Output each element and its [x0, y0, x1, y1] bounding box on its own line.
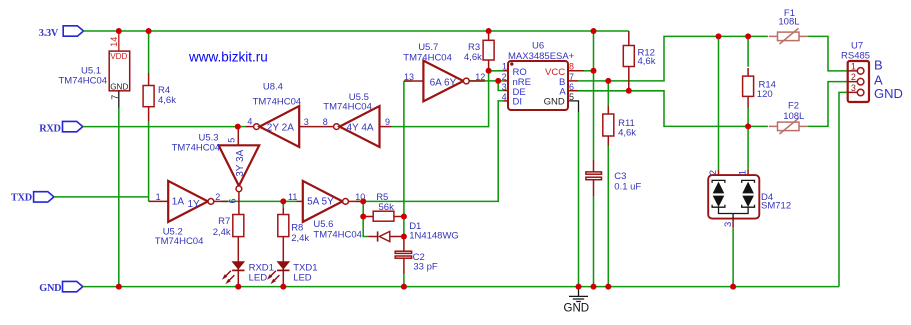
svg-text:120: 120 — [757, 89, 773, 100]
svg-text:GND: GND — [874, 86, 903, 101]
junction R4 / 3.3V rail — [146, 28, 152, 34]
svg-text:GND: GND — [110, 82, 128, 91]
wire U5.6 out to DI — [356, 101, 503, 201]
svg-text:5: 5 — [227, 138, 237, 143]
svg-text:4,6k: 4,6k — [464, 52, 482, 63]
svg-text:2,4k: 2,4k — [291, 233, 309, 244]
svg-text:LED: LED — [293, 272, 312, 283]
svg-text:TM74HC04: TM74HC04 — [403, 52, 452, 63]
junction R5 right / RC node — [401, 214, 407, 220]
resistor R8 — [278, 201, 310, 261]
svg-text:5A 5Y: 5A 5Y — [307, 197, 334, 208]
svg-text:GND: GND — [544, 97, 565, 108]
junction RXD / U5.3 input — [235, 124, 241, 130]
junction U5.1 VDD / 3.3V rail — [116, 28, 122, 34]
svg-text:U6: U6 — [532, 41, 544, 52]
ground symbol — [564, 287, 590, 315]
svg-text:3: 3 — [304, 117, 309, 127]
op-amp U5.6 inverter — [288, 181, 365, 240]
svg-text:33 pF: 33 pF — [413, 262, 437, 273]
svg-text:U8.4: U8.4 — [263, 81, 283, 92]
junction R3 / 3.3V rail — [486, 28, 492, 34]
op-amp U5.2 inverter — [149, 181, 228, 247]
junction C3 / GND rail — [591, 284, 597, 290]
svg-text:2: 2 — [502, 72, 507, 82]
svg-text:1: 1 — [737, 170, 748, 175]
resistor R11 — [603, 106, 637, 146]
junction R11 / GND rail — [605, 284, 611, 290]
svg-text:9: 9 — [385, 117, 390, 127]
op-amp U5.7 inverter — [403, 42, 485, 101]
svg-text:VDD: VDD — [110, 52, 127, 61]
resistor R4 — [143, 73, 176, 121]
wire GND to U7 pin3 — [839, 92, 848, 286]
wire B net — [578, 36, 768, 81]
wire R4 top — [148, 31, 150, 73]
svg-text:7: 7 — [569, 72, 574, 82]
svg-text:1: 1 — [851, 61, 856, 71]
port TXD — [11, 192, 54, 204]
svg-text:6: 6 — [228, 198, 238, 203]
wire R5 D1 branch — [363, 201, 368, 236]
svg-text:3: 3 — [851, 83, 856, 93]
svg-text:TM74HC04: TM74HC04 — [59, 75, 108, 86]
svg-text:1N4148WG: 1N4148WG — [409, 231, 459, 242]
wire C2 bottom — [403, 274, 405, 287]
svg-text:8: 8 — [323, 117, 328, 127]
diode D1 — [368, 221, 459, 242]
svg-text:14: 14 — [109, 37, 119, 47]
svg-text:1Y: 1Y — [188, 199, 201, 210]
junction R12 / A line — [626, 88, 632, 94]
fuse F2 — [769, 101, 808, 135]
svg-text:R7: R7 — [218, 216, 230, 227]
svg-text:13: 13 — [404, 72, 414, 82]
LED TXD1 — [267, 261, 318, 286]
junction C2 / GND rail — [401, 284, 407, 290]
wire U6 pin5 to GND — [578, 112, 580, 287]
junction U5.6 output / R5 branch — [360, 198, 366, 204]
resistor R14 — [743, 68, 776, 108]
svg-text:2Y 2A: 2Y 2A — [267, 123, 294, 134]
svg-text:1: 1 — [502, 62, 507, 72]
connector U7 RS485 — [841, 41, 903, 103]
wire D4 pin3 to GND — [732, 227, 734, 287]
wire GND bottom rail — [83, 286, 839, 288]
svg-text:TM74HC04: TM74HC04 — [313, 229, 362, 240]
wire VCC pin8 — [584, 70, 594, 72]
svg-text:LED: LED — [249, 272, 268, 283]
capacitor C3 — [586, 160, 642, 196]
wire TXD net — [54, 121, 149, 201]
svg-text:108L: 108L — [778, 17, 799, 28]
svg-text:11: 11 — [288, 192, 297, 202]
svg-text:0.1 uF: 0.1 uF — [614, 181, 641, 192]
svg-text:SM712: SM712 — [761, 201, 791, 212]
junction LED RXD1 / GND rail — [235, 284, 241, 290]
op-amp U5.5 inverter — [323, 92, 392, 147]
junction R11 / B line — [605, 78, 611, 84]
wire RXD net — [83, 126, 246, 128]
wire 3.3V top rail — [84, 30, 629, 32]
svg-text:2,4k: 2,4k — [213, 227, 231, 238]
junction R3 / RO — [486, 68, 492, 74]
resistor R12 — [623, 31, 655, 91]
wire nRE DE tie — [469, 81, 503, 91]
svg-text:4: 4 — [247, 116, 252, 126]
resistor R5 — [363, 192, 404, 221]
svg-text:2: 2 — [851, 72, 856, 82]
TVS D4 SM712 — [708, 170, 791, 227]
svg-text:3: 3 — [723, 222, 734, 227]
junction D4 pin3 / GND rail — [730, 284, 736, 290]
svg-text:7: 7 — [110, 95, 120, 100]
svg-text:4,6k: 4,6k — [618, 128, 636, 139]
wire A net — [578, 91, 768, 127]
svg-text:RS485: RS485 — [841, 51, 870, 62]
op-amp U8.4 inverter — [246, 81, 334, 147]
svg-text:B: B — [874, 58, 883, 73]
svg-text:DI: DI — [513, 97, 523, 108]
svg-text:4: 4 — [502, 92, 507, 102]
wire U5.5 pin9 to RO — [392, 71, 504, 127]
svg-text:R8: R8 — [291, 223, 303, 234]
junction R8 / U5.6 input — [280, 198, 286, 204]
junction U5.1 pin7 / GND rail — [116, 284, 122, 290]
junction nRE DE tie — [495, 78, 501, 84]
svg-text:MAX3485ESA+: MAX3485ESA+ — [508, 51, 575, 62]
junction VCC pin8 — [591, 68, 597, 74]
IC U5.1 power — [59, 31, 130, 108]
port RXD — [39, 121, 83, 134]
junction R14 bottom / A line — [745, 123, 751, 129]
wire VCC vertical — [593, 31, 595, 287]
svg-text:1A: 1A — [172, 196, 185, 207]
svg-text:TM74HC04: TM74HC04 — [253, 97, 302, 108]
fuse F1 — [769, 8, 808, 44]
LED RXD1 — [222, 261, 274, 286]
svg-text:TM74HC04: TM74HC04 — [323, 101, 372, 112]
junction ground symbol / GND rail — [576, 284, 582, 290]
junction VCC / 3.3V rail — [591, 28, 597, 34]
junction LED TXD1 / GND rail — [280, 284, 286, 290]
wire F2 to U7 pin2 — [808, 82, 848, 127]
capacitor C2 — [395, 237, 438, 275]
port 3.3V — [39, 26, 84, 39]
junction R5 left — [360, 214, 366, 220]
svg-text:TXD: TXD — [11, 193, 32, 204]
op-amp U5.3 inverter — [172, 127, 260, 215]
svg-text:8: 8 — [569, 62, 574, 72]
IC U6 MAX3485 — [502, 41, 584, 113]
svg-text:6: 6 — [569, 82, 574, 92]
svg-text:108L: 108L — [783, 111, 804, 122]
wire R11 leads — [607, 81, 609, 287]
svg-text:4Y 4A: 4Y 4A — [347, 123, 374, 134]
svg-text:TM74HC04: TM74HC04 — [172, 142, 221, 153]
wire F1 to U7 pin1 — [808, 36, 848, 71]
svg-text:3Y 3A: 3Y 3A — [235, 149, 246, 176]
wire R14 verticals — [747, 36, 749, 170]
svg-text:56k: 56k — [379, 202, 395, 213]
svg-text:4,6k: 4,6k — [158, 95, 176, 106]
wire RC node — [404, 81, 412, 237]
svg-text:F2: F2 — [788, 101, 799, 112]
svg-text:GND: GND — [39, 283, 61, 294]
svg-text:12: 12 — [475, 72, 485, 82]
wire U5.1 pin7 to GND — [118, 108, 120, 287]
wire U5.2 out to U5.6 in — [221, 200, 297, 202]
svg-text:6A 6Y: 6A 6Y — [430, 77, 457, 88]
junction D4 pin2 / B line — [716, 33, 722, 39]
resistor R7 — [213, 215, 244, 262]
svg-text:4,6k: 4,6k — [638, 56, 656, 67]
port GND — [39, 281, 83, 294]
svg-text:GND: GND — [564, 303, 590, 315]
svg-text:1: 1 — [156, 192, 161, 202]
svg-text:3.3V: 3.3V — [39, 28, 59, 39]
svg-text:TM74HC04: TM74HC04 — [155, 236, 204, 247]
junction D1 right / C2 — [401, 234, 407, 240]
svg-text:2: 2 — [708, 170, 719, 175]
svg-text:3: 3 — [502, 82, 507, 92]
svg-text:2: 2 — [215, 192, 220, 202]
resistor R3 — [464, 31, 494, 71]
svg-text:www.bizkit.ru: www.bizkit.ru — [188, 50, 268, 65]
svg-text:RXD: RXD — [39, 124, 61, 135]
junction R14 top / B line — [745, 33, 751, 39]
svg-text:5: 5 — [569, 92, 574, 102]
wire D4 pin2 — [718, 36, 720, 170]
